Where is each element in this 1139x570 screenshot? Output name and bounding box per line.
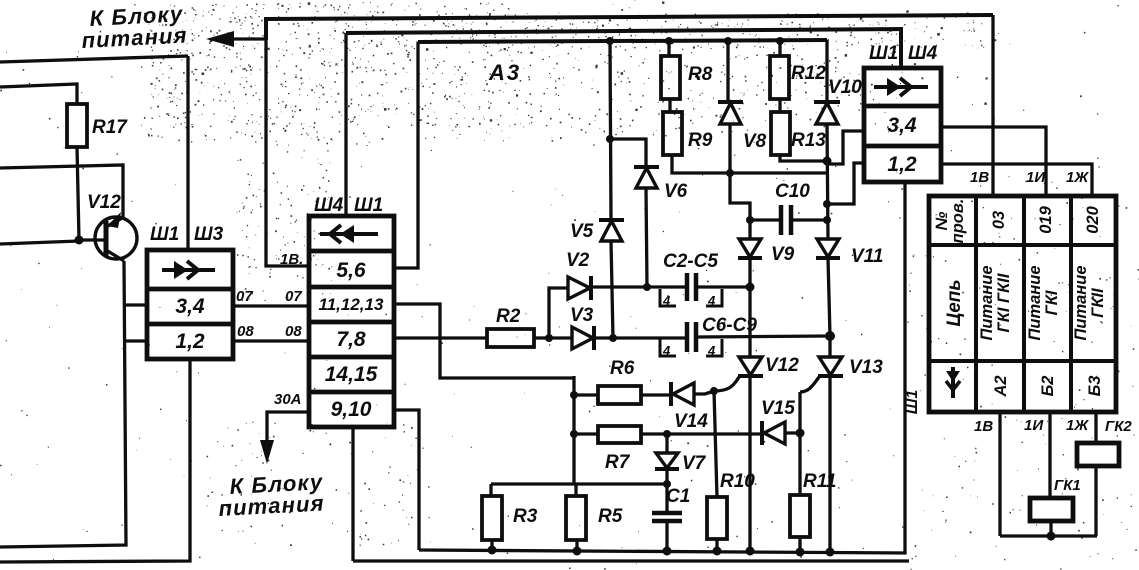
wire: R2 to V2/V3 junction — [534, 336, 549, 339]
wire: V11 down to C6-C9 node — [828, 258, 830, 336]
svg-text:Ш1: Ш1 — [869, 43, 898, 64]
svg-text:V8: V8 — [743, 131, 767, 152]
wire: R11 to ground rail — [798, 537, 801, 552]
diode V8 — [718, 102, 743, 124]
svg-text:V13: V13 — [849, 357, 883, 378]
wire: table col 020 down to ГК2 — [1094, 412, 1097, 443]
wire: bottom link 1В-1Ж (y~536) — [1000, 534, 1097, 537]
wire: x611 from A3 rail down through V5 — [610, 41, 611, 219]
resistor R6 — [598, 386, 641, 404]
label: К Блоку питания (top left) — [81, 1, 188, 53]
svg-text:1И: 1И — [1024, 417, 1044, 434]
capacitor C6-C9 — [687, 322, 830, 352]
svg-text:R5: R5 — [598, 506, 623, 527]
svg-text:4: 4 — [662, 293, 671, 308]
pin table (connector Ш1 pinout) — [929, 196, 1116, 412]
connector symbol (plug arrow) in Ш1Ш4 — [874, 78, 928, 96]
wire: R12 to R13 — [778, 99, 781, 112]
wire: R17 bottom down to base node — [77, 147, 79, 240]
svg-text:пров.: пров. — [949, 199, 967, 244]
svg-text:V11: V11 — [851, 246, 883, 267]
resistor R3 — [482, 496, 502, 540]
node V8/R9 junction — [726, 169, 734, 177]
wire: C1 to ground rail — [665, 521, 668, 551]
node C6-C9 row / V11 line — [825, 331, 835, 341]
node rail R5 — [573, 547, 582, 556]
svg-text:3,4: 3,4 — [175, 295, 205, 318]
resistor R17 — [67, 104, 87, 147]
svg-text:14,15: 14,15 — [325, 363, 378, 386]
capacitor C1 — [652, 513, 682, 521]
node R6 tap — [570, 391, 578, 399]
diode V15 — [762, 421, 785, 445]
svg-text:А3: А3 — [488, 60, 521, 85]
svg-text:V12: V12 — [87, 192, 121, 213]
diode V7 — [655, 453, 679, 469]
wire: R8 to R9 — [668, 99, 671, 112]
wire: vertical x993 down to table col 03 — [991, 15, 994, 196]
node on A3 rail at x728 — [724, 37, 732, 45]
svg-text:С2-С5: С2-С5 — [663, 251, 718, 272]
connector symbol (plug arrow) in Ш1Ш3 — [162, 261, 215, 279]
svg-text:1,2: 1,2 — [175, 330, 205, 353]
wire: A3 supply rail (y~41) — [418, 40, 827, 42]
diode V11 — [816, 239, 840, 258]
bracket 4 (left of C2-C5) — [660, 289, 676, 308]
head ГК2 — [1077, 443, 1119, 466]
resistor R12 — [770, 56, 789, 99]
node rail V12 — [746, 547, 755, 556]
wire: node down to V13 — [828, 336, 831, 357]
wire: branch up to V2 — [549, 288, 568, 338]
node R7 tap — [570, 430, 578, 438]
wire: ground rail (y~551) — [419, 182, 905, 553]
wire: x418 down to 5,6 row of middle connector — [394, 42, 418, 268]
node V6/C2-C5 — [643, 283, 651, 291]
svg-text:11,12,13: 11,12,13 — [319, 295, 384, 314]
svg-text:Ш4: Ш4 — [314, 195, 344, 216]
svg-text:5,6: 5,6 — [336, 259, 366, 282]
wire: R10 to ground rail — [715, 539, 718, 551]
svg-text:V5: V5 — [570, 221, 594, 242]
label: К Блоку питания (bottom) — [218, 469, 325, 521]
wire: V13 gate down to node — [798, 392, 801, 433]
wire: R13 bottom to V10 line — [780, 155, 827, 161]
wire: V15 anode to R11 node — [785, 431, 800, 434]
svg-text:R11: R11 — [803, 471, 836, 492]
svg-text:Ш1: Ш1 — [150, 224, 179, 245]
svg-text:Ш4: Ш4 — [908, 43, 938, 64]
svg-text:Б3: Б3 — [1086, 376, 1104, 397]
wire: branch vertical x574 (R6/R7/R5 feed) — [572, 376, 575, 484]
svg-text:R7: R7 — [605, 452, 631, 473]
svg-text:ГК2: ГК2 — [1105, 418, 1132, 435]
resistor R5 — [566, 496, 586, 540]
svg-text:1В: 1В — [974, 418, 993, 435]
connector symbol (socket arrow, rotated) in table — [946, 367, 960, 398]
svg-text:V7: V7 — [682, 453, 707, 474]
arrow down to power block — [260, 440, 274, 464]
wire: R3/R5 top row (y~484) — [491, 482, 667, 485]
svg-text:019: 019 — [1037, 205, 1055, 233]
wire: V10 anode down through junctions to V11 — [827, 124, 828, 239]
label Питание ГКI (rotated) — [1026, 265, 1061, 340]
diode V5 — [599, 220, 624, 241]
resistor R2 — [487, 329, 534, 347]
connector Ш4 Ш1 (middle) — [309, 216, 394, 427]
node on A3 rail at x669 — [665, 37, 673, 45]
wire: V6 anode down to C2-C5 row — [646, 188, 647, 287]
wire: R3 to ground rail — [490, 540, 493, 550]
diode V14 — [671, 382, 694, 406]
diode V9 — [738, 220, 762, 258]
svg-text:9,10: 9,10 — [331, 398, 372, 421]
node x827 y220 (C10 right) — [823, 216, 831, 224]
node rail R11 — [796, 548, 805, 557]
svg-text:R13: R13 — [791, 130, 826, 151]
wire: down to C10 left — [730, 173, 750, 221]
svg-text:Ш3: Ш3 — [194, 224, 224, 245]
connector Ш1 Ш4 (right) — [864, 68, 941, 182]
wire: stub into 3,4 row — [125, 303, 147, 306]
diode V10 — [814, 102, 840, 124]
resistor R8 — [661, 56, 680, 99]
svg-text:ГКII: ГКII — [1089, 288, 1107, 318]
wire: V9 to C2-C5 node, down to V12 — [748, 258, 751, 357]
wire: to R7 — [574, 432, 598, 435]
wire: R5 to ground rail — [575, 540, 578, 551]
label Питание ГКI ГКII (rotated) — [978, 265, 1013, 340]
wire: C2-C5 row (V2 cathode to V9) — [592, 285, 687, 288]
wire: 3,4 row right to table col 019 — [941, 127, 1046, 196]
wire: middle connector bottom to common rail — [351, 427, 354, 561]
svg-text:4: 4 — [707, 343, 716, 358]
node x611 y139 — [606, 135, 614, 143]
connector Ш1 Ш3 — [147, 250, 233, 359]
node rail R3 — [488, 546, 497, 555]
thyristor V12 — [714, 357, 763, 391]
wire: branch to V6 — [610, 139, 646, 167]
node on A3 rail at x611 — [606, 37, 614, 45]
svg-text:4: 4 — [707, 293, 716, 308]
svg-text:03: 03 — [990, 211, 1008, 229]
arrow to power block (top, pointing left) — [206, 31, 267, 47]
wire: left edge y~84 to R17 top — [0, 84, 77, 104]
wire: collector down with stubs into Ш1Ш3 rows, to bottom left — [0, 261, 126, 547]
capacitor C10 — [750, 205, 827, 235]
thyristor V13 — [800, 357, 843, 392]
svg-text:1И: 1И — [1026, 169, 1046, 186]
node rail C1 — [663, 547, 672, 556]
capacitor C2-C5 — [687, 273, 750, 301]
head ГК1 — [1030, 498, 1073, 521]
wire: V5 anode down to C6-C9 row — [611, 241, 613, 338]
wire: stub into 1,2 row — [126, 339, 147, 342]
svg-text:07: 07 — [236, 288, 253, 305]
wire: common rail bottom-left piece (y~561) — [0, 359, 190, 562]
svg-text:V6: V6 — [664, 181, 688, 202]
wire: top rail 1 (y~17) from arrow junction to right corner — [266, 15, 993, 40]
svg-text:V10: V10 — [828, 77, 862, 98]
svg-text:V14: V14 — [674, 411, 708, 432]
wire: 7,8 row to R2 — [394, 336, 487, 339]
wire: A3 rail corner down to V10 — [825, 40, 828, 102]
wire: C6-C9 row (V3 cathode to V13 line) — [594, 336, 687, 339]
label № пров. (rotated) — [933, 199, 967, 244]
resistor R10 — [707, 497, 727, 539]
node V7 tap — [663, 430, 671, 438]
svg-text:Питание: Питание — [1072, 265, 1090, 340]
svg-text:1,2: 1,2 — [887, 153, 917, 176]
svg-text:1В: 1В — [970, 169, 989, 186]
wire: ГК2 down to common node — [1094, 466, 1097, 536]
svg-text:R2: R2 — [496, 306, 521, 327]
wire: top rail 2 (y~31) — [346, 29, 901, 68]
svg-text:3,4: 3,4 — [887, 114, 917, 137]
resistor R7 — [598, 426, 641, 443]
svg-text:R10: R10 — [720, 471, 755, 492]
resistor R11 — [790, 495, 810, 537]
svg-text:020: 020 — [1084, 205, 1102, 233]
svg-text:C10: C10 — [775, 181, 810, 202]
node A (base junction) — [75, 236, 84, 245]
node x827 y204 — [823, 200, 831, 208]
svg-text:R8: R8 — [688, 64, 713, 85]
wire: rail to V8 — [726, 41, 729, 102]
node rail V13 — [826, 548, 835, 557]
svg-text:ГК1: ГК1 — [1054, 477, 1081, 494]
resistor R13 — [771, 112, 790, 155]
wire: left edge y~242 to base node — [0, 241, 79, 244]
svg-text:1Ж: 1Ж — [1066, 417, 1089, 434]
wire: left edge y~166 to emitter corner — [0, 165, 123, 217]
wire: 9,10 row right to ground rail — [394, 410, 419, 550]
diode V6 — [634, 167, 659, 188]
wire: vertical x188 down to connector Ш1Ш3 top — [186, 56, 189, 250]
svg-text:V12: V12 — [765, 355, 799, 376]
svg-text:Ш1: Ш1 — [354, 195, 383, 216]
wire: V7 to C1 — [665, 469, 668, 513]
wire: 11,12,13 row to R6/R7 branch vertical — [394, 304, 574, 378]
svg-text:Питание: Питание — [1026, 265, 1044, 340]
node x827 y161 — [823, 157, 832, 166]
diode V3 — [549, 326, 594, 350]
node rail R10 — [713, 547, 722, 556]
wire: rail to R12 — [778, 41, 781, 56]
svg-text:R6: R6 — [610, 358, 635, 379]
svg-text:R3: R3 — [513, 506, 538, 527]
svg-text:08: 08 — [237, 323, 254, 340]
wire: R7 to V15 row — [641, 432, 762, 435]
wire: corner down to R3 — [489, 484, 492, 496]
wire: R6 to V14 — [641, 393, 671, 396]
wire: common rail bottom (y~561) — [353, 559, 909, 562]
node on A3 rail at x780 — [776, 37, 784, 45]
svg-text:ГКI ГКII: ГКI ГКII — [995, 273, 1013, 332]
svg-text:08: 08 — [285, 323, 302, 340]
svg-text:Питание: Питание — [978, 265, 996, 340]
wire: 9,10 left stub to power-block arrow — [267, 412, 309, 452]
bracket 4 (right of C2-C5) — [706, 289, 722, 308]
node ГК common — [1047, 532, 1056, 541]
svg-text:V9: V9 — [771, 244, 795, 265]
svg-text:V3: V3 — [570, 305, 594, 326]
wire: table col 019 down to ГК1 — [1048, 412, 1051, 498]
resistor R9 — [663, 112, 682, 155]
svg-text:Ш1: Ш1 — [904, 390, 921, 415]
scan noise cloud (decorative) — [151, 4, 999, 129]
bracket 4 (right of C6-C9) — [706, 339, 722, 358]
wire: V7 branch down — [665, 434, 668, 453]
wire: vertical x346 down to middle connector — [344, 33, 347, 216]
svg-text:Цепь: Цепь — [944, 279, 965, 326]
node V7/R3R5 row — [663, 480, 671, 488]
wire: table col 03 down to common node — [998, 412, 1001, 536]
wire: node down to R10 — [714, 391, 717, 497]
node V2/V3 junction — [545, 334, 553, 342]
svg-text:Б2: Б2 — [1039, 376, 1057, 397]
label Питание ГКII (rotated) — [1072, 265, 1107, 340]
svg-text:R9: R9 — [688, 130, 713, 151]
node V14/R10/V12-gate — [710, 387, 718, 395]
diode V2 — [568, 276, 591, 300]
wire 08 between connectors — [233, 339, 309, 342]
wire: to R6 — [574, 393, 598, 396]
svg-text:4: 4 — [662, 343, 671, 358]
wire: x266 down to 1В stub of middle connector — [266, 39, 309, 266]
svg-text:А2: А2 — [992, 375, 1010, 397]
bracket 4 (left of C6-C9) — [660, 339, 676, 358]
node C10 left junction — [746, 216, 754, 224]
wire: node down to R11 — [798, 433, 801, 495]
svg-text:07: 07 — [285, 288, 302, 305]
wire: V8 anode down — [728, 124, 731, 173]
wire: R5 top — [574, 484, 577, 496]
wire: V12 cathode down to ground rail — [748, 376, 751, 551]
svg-text:30А: 30А — [274, 391, 302, 408]
wire: V13 cathode down to ground rail — [828, 376, 831, 552]
transistor V12 (PNP) — [95, 212, 137, 261]
node C2-C5 row / V9 line — [746, 283, 755, 292]
wire: base node to transistor base — [79, 238, 105, 241]
wire 07 between connectors — [233, 304, 309, 307]
svg-text:1В.: 1В. — [280, 251, 303, 268]
wire: ГК1 to common node — [1049, 521, 1052, 536]
wire: left edge top to A1 box corner (y~56) — [0, 56, 188, 62]
svg-text:V15: V15 — [761, 398, 795, 419]
svg-text:R12: R12 — [791, 63, 826, 84]
svg-text:1Ж: 1Ж — [1066, 169, 1089, 186]
connector symbol (socket arrow) in Ш4Ш1 — [320, 225, 378, 243]
svg-text:R17: R17 — [92, 117, 128, 138]
svg-text:V2: V2 — [566, 250, 590, 271]
wire: rail to R8 — [667, 41, 670, 56]
wire: step from 3,4 row of Ш1Ш4 to V10 line — [829, 131, 864, 164]
node V15/R11/V13-gate — [796, 429, 805, 438]
wire: V14 anode to gate node — [694, 391, 714, 394]
wire: 1,2 row right to table col 020 — [941, 164, 1092, 196]
wire: R9 bottom to V10 line (y~173) — [672, 155, 827, 173]
svg-text:7,8: 7,8 — [336, 328, 366, 351]
wire: step from 1,2 row of Ш1Ш4 to C10 right — [829, 163, 864, 204]
node V5/C6-C9 — [609, 334, 617, 342]
svg-text:С1: С1 — [666, 486, 690, 507]
